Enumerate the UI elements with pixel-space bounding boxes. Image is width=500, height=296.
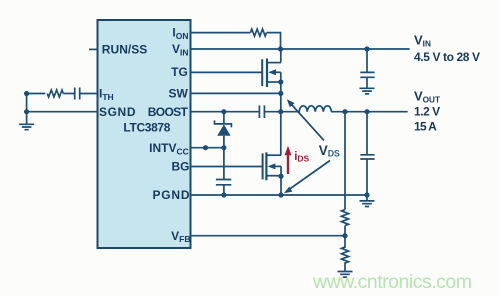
wire cap to resistor (63, 93, 74, 95)
svg-text:1.2 V: 1.2 V (414, 104, 440, 118)
ground R4 (338, 272, 353, 278)
diode D1 zener bootstrap (215, 112, 232, 148)
capacitor C2 VIN input cap (360, 72, 374, 77)
inductor L1 (281, 106, 332, 112)
svg-text:www.cntronics.com: www.cntronics.com (312, 271, 472, 293)
node SW pin junction (278, 91, 283, 96)
wire PGND rail (190, 194, 367, 196)
wire VDS lower pointer (289, 161, 330, 190)
svg-text:LTC3878: LTC3878 (123, 121, 170, 135)
wire SW node vertical (280, 72, 282, 155)
wire VDS upper pointer (292, 105, 325, 141)
wire SGND (27, 111, 97, 113)
wire VIN rail (190, 48, 410, 50)
wire resistor to corner node A (27, 94, 46, 112)
resistor R4 feedback bottom (342, 236, 349, 271)
svg-text:15 A: 15 A (414, 120, 437, 134)
capacitor C5 output cap plates (360, 155, 374, 159)
capacitor C1 ITH compensation cap plates (75, 88, 80, 100)
wire ITH to cap (80, 93, 97, 95)
wire R3 to FB node (344, 226, 346, 236)
node VIN cap junction (364, 46, 369, 51)
wire resistor to VIN rail (267, 33, 281, 49)
transistor Q2 bottom N-MOSFET (263, 152, 281, 180)
ground SGND (19, 112, 34, 130)
node VOUT cap junction (364, 109, 369, 114)
wire VFB pin (190, 235, 345, 237)
transistor Q1 top N-MOSFET (262, 59, 281, 88)
ground VIN cap (360, 88, 375, 94)
resistor R3 feedback top (342, 210, 349, 226)
svg-text:RUN/SS: RUN/SS (102, 43, 148, 57)
wire RUN/SS stub (89, 48, 97, 50)
wire TG to gate (190, 71, 262, 73)
svg-text:VOUT: VOUT (414, 88, 440, 104)
wire BG to gate (190, 166, 263, 168)
ground PGND (360, 195, 375, 207)
wire cap to ground (366, 77, 368, 87)
node VIN-ION junction (278, 46, 283, 51)
node SGND corner (24, 109, 29, 114)
svg-text:PGND: PGND (153, 188, 190, 202)
svg-text:VIN: VIN (414, 33, 431, 49)
node Q2 source-body (278, 174, 283, 179)
resistor R1 ITH compensation (47, 90, 63, 97)
node PGND end (364, 192, 369, 197)
wire VOUT cap stem (366, 112, 368, 155)
svg-text:BOOST: BOOST (148, 105, 189, 119)
svg-text:4.5 V to 28 V: 4.5 V to 28 V (414, 50, 480, 64)
svg-text:TG: TG (171, 65, 188, 79)
capacitor C3 bootstrap cap plates (259, 105, 264, 118)
node ITH corner (24, 91, 29, 96)
wire INTVCC pin (190, 147, 224, 149)
wire INTVCC cap stem (223, 148, 225, 180)
op-amp U1 LTC3878 IC body (98, 20, 191, 248)
svg-text:SGND: SGND (99, 105, 136, 119)
annotation VDS arrows (284, 99, 330, 193)
wire BOOST pin to cap (190, 111, 259, 113)
annotation iDS current arrow (285, 146, 292, 174)
svg-text:VDS: VDS (319, 143, 340, 158)
wire SW pin (190, 92, 281, 94)
wire Q1 drain to VIN node (280, 49, 282, 63)
node PGND cap junction (221, 192, 226, 197)
wire ION to resistor (190, 32, 251, 34)
node VOUT divider junction (342, 109, 347, 114)
wire divider top (344, 112, 346, 210)
node VFB divider (342, 233, 347, 238)
resistor R2 ION (251, 29, 267, 36)
node SW-boost-inductor (278, 109, 283, 114)
wire VOUT rail (331, 111, 408, 113)
wire boost cap to SW node (264, 111, 280, 113)
wire cap to PGND (223, 185, 225, 195)
node Q2 PGND junction (278, 192, 283, 197)
node INTVCC stub (203, 145, 208, 150)
wire Q2 body-source to PGND (280, 166, 282, 195)
node junction dots (24, 46, 370, 238)
capacitor C4 INTVCC decoupling plates (216, 180, 231, 185)
wire VIN cap stem (366, 49, 368, 72)
node INTVCC diode junction (221, 145, 226, 150)
wire out cap to PGND (366, 159, 368, 195)
svg-text:BG: BG (172, 160, 190, 174)
svg-text:iDS: iDS (294, 151, 309, 164)
node Q1 source-body (278, 79, 283, 84)
svg-text:SW: SW (168, 87, 188, 101)
node boost diode junction (221, 109, 226, 114)
